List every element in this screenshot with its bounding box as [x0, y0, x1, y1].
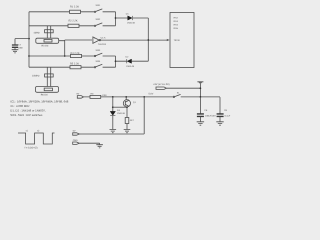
switch SW4	[94, 67, 95, 68]
ground under C9	[216, 122, 223, 125]
svg-text:74HC04: 74HC04	[98, 43, 107, 46]
net flag GND	[73, 142, 80, 144]
capacitor C9 plates	[217, 114, 224, 117]
wire GND stub	[79, 143, 99, 144]
node dot tie	[112, 106, 114, 108]
svg-text:1N4148: 1N4148	[127, 21, 135, 24]
transistor Q1 collector stub	[125, 97, 127, 100]
resistor R2	[68, 24, 79, 27]
switch S1 on rail	[173, 96, 174, 97]
svg-text:GND: GND	[73, 139, 78, 142]
wire flag to vcc stem	[166, 87, 200, 89]
node dot bus W3	[28, 55, 30, 57]
svg-text:100uF/16V: 100uF/16V	[205, 114, 216, 117]
wire W4	[29, 66, 116, 68]
svg-text:R5 2.2K: R5 2.2K	[70, 63, 79, 66]
wire 0V return loop	[79, 97, 144, 134]
wire vertical joining W1-W2	[115, 12, 117, 26]
svg-text:1N4148: 1N4148	[117, 112, 125, 115]
capacitor C8 lead	[199, 97, 201, 113]
svg-text:0.1uF: 0.1uF	[225, 114, 231, 117]
svg-text:10MHz: 10MHz	[32, 75, 40, 78]
wire emitter tie	[113, 106, 127, 108]
svg-text:R1 2.2K: R1 2.2K	[70, 5, 79, 8]
svg-text:5.0V: 5.0V	[149, 93, 154, 96]
svg-text:f = 1/(t1+t2): f = 1/(t1+t2)	[25, 146, 38, 149]
svg-text:U1:A: U1:A	[101, 36, 106, 39]
svg-text:R4 2.2K: R4 2.2K	[71, 52, 80, 55]
resistor R6 inside B2	[44, 88, 52, 91]
svg-text:T0CKI: T0CKI	[174, 39, 181, 42]
wire to diode D2	[116, 60, 149, 62]
op-amp U2A inverter	[93, 37, 99, 43]
wire vertical node x148	[147, 18, 149, 61]
net flag 0V	[73, 133, 80, 135]
node dot stem/rail	[200, 96, 202, 98]
ground under R7	[124, 130, 131, 133]
feedback loop box B1	[36, 38, 59, 43]
svg-text:4MHz: 4MHz	[34, 32, 41, 35]
power VCC wedge	[198, 82, 202, 84]
resistor R1	[70, 10, 81, 13]
ground under D3	[110, 130, 117, 133]
power VCC symbol	[197, 82, 203, 97]
arrowhead into IC pin	[167, 39, 170, 41]
resistor R4	[71, 54, 82, 57]
svg-text:+5V (or Vcc 5V): +5V (or Vcc 5V)	[153, 83, 170, 86]
waveform square wave	[18, 133, 55, 144]
ground under C8	[197, 122, 204, 125]
svg-text:470R: 470R	[102, 94, 107, 97]
svg-text:D1, D2 : 1N4148 or 1N4007,: D1, D2 : 1N4148 or 1N4007,	[10, 109, 46, 113]
wire bus vertical left	[28, 12, 30, 67]
svg-text:100n: 100n	[18, 47, 24, 50]
resistor R7 vertical	[125, 118, 129, 124]
wire W2	[29, 25, 116, 27]
svg-text:SW1..SW4 : DIP switches: SW1..SW4 : DIP switches	[10, 113, 43, 117]
node dot output/x148	[147, 39, 149, 41]
svg-text:1N4148: 1N4148	[126, 65, 134, 68]
svg-text:R2 2.2K: R2 2.2K	[69, 19, 78, 22]
svg-text:SW4: SW4	[96, 60, 102, 63]
net label 5V flag	[156, 87, 166, 89]
resistor R8	[90, 95, 101, 98]
svg-text:SW1: SW1	[96, 4, 102, 7]
node dot emitter	[126, 106, 128, 108]
ground under C7	[12, 50, 19, 53]
wire W3	[29, 55, 116, 57]
svg-text:SW3: SW3	[96, 49, 102, 52]
capacitor C7 plates	[12, 45, 18, 47]
node dot W1W2	[115, 17, 117, 19]
notes text block	[10, 99, 68, 117]
wire vertical joining W3-W4	[115, 56, 117, 67]
diode D2	[127, 59, 132, 63]
wire to diode D1	[116, 17, 149, 19]
switch SW3	[94, 55, 95, 56]
svg-text:R3 1M: R3 1M	[42, 44, 49, 47]
resistor R5	[70, 66, 81, 69]
node dot flag/stem	[200, 87, 202, 89]
IC U1 box	[170, 13, 194, 68]
node dot D3 rail	[112, 96, 114, 98]
diode D3 vertical	[112, 97, 114, 112]
svg-text:R6 1M: R6 1M	[41, 93, 48, 96]
wire corner to inverter input	[59, 40, 92, 56]
capacitor C7 left wire	[15, 39, 29, 45]
diode D1	[128, 16, 133, 20]
resistor R3 inside B1	[44, 40, 52, 43]
node dot loop rail	[143, 96, 145, 98]
ground at GND flag	[96, 145, 103, 148]
node dot corner W3	[64, 55, 66, 57]
svg-text:1: 1	[94, 37, 95, 40]
capacitor C8 plates	[197, 114, 204, 117]
net flag 9V input	[77, 96, 83, 99]
svg-text:SW2: SW2	[96, 18, 102, 21]
wire U2A output to IC	[101, 39, 168, 41]
crystal X1	[47, 26, 50, 38]
switch SW1	[94, 11, 95, 12]
wire power rail	[84, 96, 221, 98]
node dot bus C7	[28, 38, 30, 40]
switch SW2	[94, 25, 95, 26]
transistor Q1	[123, 100, 130, 107]
crystal X2	[47, 67, 50, 86]
capacitor C9 lead	[219, 97, 221, 113]
svg-text:IC1 : 16F84A, 16F628A, 16F648A: IC1 : 16F84A, 16F628A, 16F648A, 16F88, 6…	[10, 99, 68, 103]
node dot W3W4	[115, 60, 117, 62]
svg-text:X1 : 4.000 MHz: X1 : 4.000 MHz	[10, 104, 30, 108]
feedback loop box B2	[36, 87, 59, 93]
wire W1 top	[29, 11, 116, 13]
node dot Q1 rail	[125, 96, 127, 98]
